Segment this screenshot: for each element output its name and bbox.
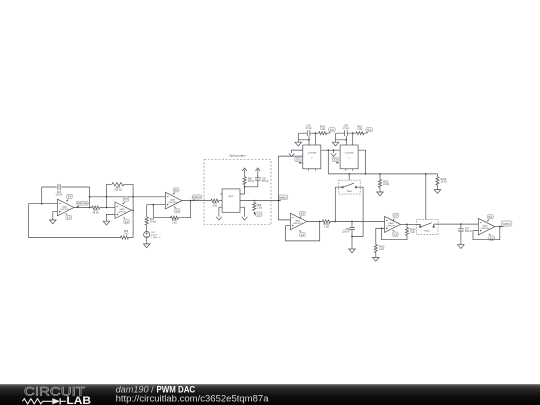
svg-text:4N25: 4N25 [228, 196, 234, 198]
resistor R014 [405, 228, 416, 236]
svg-text:5 V: 5 V [489, 216, 493, 219]
svg-text:10 kΩ: 10 kΩ [150, 221, 156, 223]
op-amp OA01 [57, 199, 74, 216]
node R09 tap [253, 200, 255, 202]
node rail drop U2 [352, 132, 354, 134]
wire R02 stem [146, 205, 148, 232]
svg-text:CD4093B: CD4093B [307, 152, 316, 154]
svg-text:10 kΩ: 10 kΩ [441, 181, 447, 183]
resistor R015 [374, 245, 385, 253]
ground OA01 [50, 218, 57, 224]
node C07 tap [460, 223, 462, 225]
wire R04 feedback loop [107, 184, 134, 237]
wire C04 ground branch [336, 133, 347, 145]
label box after opto [278, 195, 287, 201]
wire chevron stub U2 [333, 150, 335, 153]
callout 5V rail 2 [366, 128, 373, 134]
wire OA03 output [182, 200, 211, 202]
resistor R016 [436, 177, 447, 185]
voltage source V02 Input1 [144, 232, 161, 240]
ground rail 2 [332, 140, 339, 146]
wire U1 out down to long rail [327, 150, 329, 174]
svg-text:LMP2011: LMP2011 [293, 223, 303, 225]
node OA03 output junction [190, 200, 192, 202]
wire OA01 output [74, 207, 92, 209]
resistor R07 [211, 199, 219, 208]
capacitor C06 [342, 222, 355, 247]
svg-text:1 kΩ: 1 kΩ [212, 206, 217, 208]
wire U2 out right and down [358, 150, 365, 174]
svg-text:Optocoupler: Optocoupler [229, 154, 246, 158]
svg-text:LMP2011: LMP2011 [481, 228, 491, 230]
svg-text:470 nF: 470 nF [262, 181, 270, 183]
logo diode [52, 398, 66, 404]
gate IC U1 CD4093B [303, 145, 321, 171]
wire OA05 plus stub to R015 [376, 228, 385, 255]
wire OA05 output [401, 223, 417, 225]
svg-text:1 kHz 1 V: 1 kHz 1 V [151, 237, 161, 239]
rail RC group 2 [336, 132, 366, 134]
rail RC group 1 [298, 132, 328, 134]
label box PWM amp node [192, 195, 202, 201]
callout 5V OA03 [172, 188, 179, 195]
op-amp OA04 [290, 213, 306, 229]
op-amp OA02 [115, 202, 132, 219]
ground R016 [434, 187, 441, 193]
svg-text:1 V: 1 V [394, 233, 398, 236]
svg-text:4: 4 [311, 158, 313, 160]
svg-text:1 V: 1 V [301, 234, 305, 237]
svg-text:1 kΩ: 1 kΩ [172, 223, 177, 225]
svg-text:SW01: SW01 [346, 191, 353, 193]
svg-text:PWM 2: PWM 2 [280, 197, 288, 199]
node opto output junction [278, 200, 280, 202]
capacitor C07 [458, 224, 473, 242]
wire U1 out to U2 [321, 149, 340, 151]
node cap2 ground tee [345, 139, 347, 141]
wire OA02 plus to ground [107, 214, 116, 218]
wire opto output [240, 200, 278, 202]
wire long top rail [328, 173, 437, 175]
svg-text:1 V: 1 V [125, 221, 129, 224]
wire OA01 input line [29, 203, 58, 205]
wire bus OA01 to OA03 [90, 196, 166, 198]
node feedback tap [152, 204, 154, 206]
callout 5V OA05 [392, 213, 399, 221]
svg-text:5 V: 5 V [367, 129, 371, 132]
label box PWM node [76, 201, 88, 208]
node U1-U2 wire taps [327, 149, 334, 151]
callout 5V OA01 [66, 194, 73, 201]
node OA01 output junction [89, 207, 91, 209]
node R04 tap [106, 207, 108, 209]
resistor R013 [378, 179, 389, 187]
wire SW01 right down to cap node [352, 187, 363, 236]
callout 5V OA04 [299, 211, 306, 218]
wire source to ground [146, 238, 148, 242]
svg-text:100 nF: 100 nF [55, 195, 63, 197]
svg-text:OUT 1: OUT 1 [503, 223, 511, 226]
capacitor C05 [255, 178, 269, 183]
callout 1V OA04 [299, 230, 305, 237]
switch SW01 dashed box [339, 180, 360, 194]
resistor R02 [145, 217, 156, 225]
footer title line [116, 383, 196, 394]
wire OA03 minus input line [147, 204, 166, 206]
svg-text:PWM 1kHz: PWM 1kHz [77, 203, 88, 205]
wire OA04 output [307, 221, 385, 223]
capacitor C04 [343, 125, 350, 136]
ground C06 [349, 247, 356, 253]
wire U1 pin A with chevron [292, 150, 303, 153]
wire R014 loop [382, 224, 408, 239]
resistor R012 [322, 220, 330, 229]
svg-text:5 V: 5 V [334, 159, 338, 162]
callout 5V rail 1 [328, 128, 335, 134]
svg-text:470 Ω: 470 Ω [248, 181, 254, 183]
wire OA04 feedback [286, 222, 320, 241]
svg-text:LMP2011: LMP2011 [118, 212, 128, 214]
resistor R09 [253, 203, 262, 211]
svg-text:10 kΩ: 10 kΩ [383, 184, 389, 186]
wire C05 bottom to R08 rail [245, 180, 258, 187]
ground OA02 [103, 219, 110, 225]
svg-text:SW02: SW02 [424, 230, 431, 232]
callout 1V OA05 [392, 230, 398, 237]
ground R015 [373, 255, 380, 261]
svg-text:100 kΩ: 100 kΩ [114, 189, 122, 191]
wire U1 pin bottom-left stub [301, 162, 303, 164]
node C06 taps [351, 221, 353, 238]
svg-text:LMP2011: LMP2011 [168, 202, 178, 204]
wire SW02 contacts [417, 224, 439, 227]
svg-text:LMP2011: LMP2011 [387, 226, 397, 228]
logo resistor zigzag [22, 399, 52, 404]
callout 1V OA02 [123, 217, 129, 224]
chevron ground U1 [289, 153, 295, 156]
ground rail 1 [295, 140, 302, 146]
svg-text:5 V: 5 V [330, 129, 334, 132]
callout 5V U2 [332, 157, 339, 163]
wire R03 to OA02 [100, 207, 115, 209]
svg-text:PWM 5V: PWM 5V [193, 197, 202, 199]
svg-text:1 V: 1 V [67, 217, 71, 220]
vcc arrow R08 [242, 168, 247, 177]
wire OA06 feedback [473, 227, 500, 240]
svg-text:1 kΩ: 1 kΩ [320, 129, 325, 131]
resistor R03 [92, 206, 100, 215]
wire C03 ground branch [298, 133, 309, 145]
capacitor C03 [305, 125, 312, 136]
resistor R010 [319, 126, 327, 134]
svg-text:5 V: 5 V [124, 198, 128, 201]
svg-text:1 kΩ: 1 kΩ [324, 227, 329, 229]
wire bottom feedback [29, 237, 134, 239]
svg-text:1 kΩ: 1 kΩ [357, 129, 362, 131]
wire R07 to opto IC [219, 200, 222, 202]
callout 1V OA03 [174, 206, 181, 213]
wire control drop to SW02 [425, 174, 427, 220]
node OA06 output junction [499, 226, 501, 228]
resistor R011 [356, 126, 364, 134]
wire OA01 plus input to ground [53, 212, 58, 218]
callout 1V OA06 [488, 234, 494, 241]
svg-text:1 V: 1 V [257, 213, 261, 216]
callout 5V OA06 [487, 215, 494, 222]
wire rail drop to U1 [314, 133, 316, 145]
svg-text:100 nF: 100 nF [465, 231, 473, 233]
chevron ground opto right [242, 217, 248, 220]
node rail drop U1 [315, 132, 317, 134]
svg-text:1 kΩ: 1 kΩ [410, 232, 415, 234]
svg-text:5 V: 5 V [296, 159, 300, 162]
wire opto pin2 to chevron ground left [219, 207, 222, 216]
svg-text:http://circuitlab.com/c3652e5t: http://circuitlab.com/c3652e5tqm87a [116, 393, 270, 404]
vcc arrow C05 [255, 168, 260, 178]
node SW01 left junction [334, 221, 336, 223]
capacitor C02 [55, 184, 63, 197]
wire R016 stem [437, 174, 439, 187]
label box OUT [501, 221, 512, 227]
svg-text:1 kΩ: 1 kΩ [124, 234, 129, 236]
svg-text:4: 4 [349, 158, 351, 160]
wire opto pin5 to chevron ground right [240, 207, 245, 216]
switch SW02 dashed box [417, 220, 439, 235]
svg-text:1 kΩ: 1 kΩ [257, 207, 262, 209]
wire top feedback of OA01 [42, 186, 90, 188]
node R014 plus junction [381, 228, 383, 230]
callout 5V U1 [295, 157, 302, 163]
node OA02 output [132, 209, 134, 211]
svg-text:5 V: 5 V [394, 214, 398, 217]
svg-text:48 kΩ: 48 kΩ [93, 212, 99, 214]
wire left vertical to OA01 input [41, 187, 43, 204]
svg-text:5 V: 5 V [68, 196, 72, 199]
svg-text:1 kΩ: 1 kΩ [379, 249, 384, 251]
svg-text:CD4093B: CD4093B [345, 152, 354, 154]
wire R013 stem [379, 174, 381, 190]
ground source [143, 242, 150, 248]
wire outer feedback left vertical [28, 204, 30, 238]
ground C07 [458, 242, 465, 248]
wire OA03 feedback [153, 201, 190, 218]
resistor R05 [121, 231, 129, 239]
wire SW01 left to OA04 output [335, 187, 342, 221]
svg-text:220 nF: 220 nF [342, 231, 350, 233]
node R014 tap [406, 224, 408, 226]
svg-text:1 V: 1 V [175, 210, 179, 213]
wire long vertical to gates and OA04 [278, 156, 290, 220]
footer bar [0, 384, 540, 405]
svg-text:4.7 µF: 4.7 µF [305, 128, 312, 130]
resistor R06 [171, 216, 179, 225]
node OA04 fb junction [319, 221, 321, 223]
wire gate U1 pin B [278, 155, 302, 157]
wire SW02 to OA06 [438, 223, 478, 225]
chevron ground opto left [216, 217, 222, 220]
svg-text:LMP2011: LMP2011 [60, 209, 70, 211]
ground R013 [377, 190, 384, 196]
svg-text:5 V: 5 V [301, 212, 305, 215]
chevron ground U2 [331, 153, 337, 156]
node junction OA01 input [41, 203, 43, 205]
resistor R04 [112, 183, 124, 192]
wire OA06 output [495, 226, 503, 228]
svg-text:4.7 µF: 4.7 µF [343, 128, 350, 130]
optocoupler dashed box [204, 160, 271, 225]
op-amp OA03 [165, 192, 182, 209]
gate IC U2 CD4093B [340, 145, 358, 171]
wire output up to cap [89, 187, 91, 208]
resistor R08 [243, 177, 254, 185]
node rail taps [348, 173, 426, 175]
callout 5V OA02 [122, 197, 129, 204]
wire rail drop to U2 [352, 133, 354, 145]
node R08/C05 [244, 186, 246, 188]
wire R08 down to pin [244, 185, 246, 194]
svg-text:5 V: 5 V [174, 189, 178, 192]
svg-text:LAB: LAB [66, 395, 91, 405]
opto IC OC01 [220, 189, 244, 212]
node cap ground tee [308, 139, 310, 141]
callout 1V R09 [254, 211, 262, 216]
wire control drop to SW01 [348, 174, 350, 180]
node bus junctions [89, 196, 134, 198]
op-amp OA06 [478, 218, 495, 235]
callout 1V OA01 [65, 213, 71, 220]
op-amp OA05 [385, 216, 401, 232]
